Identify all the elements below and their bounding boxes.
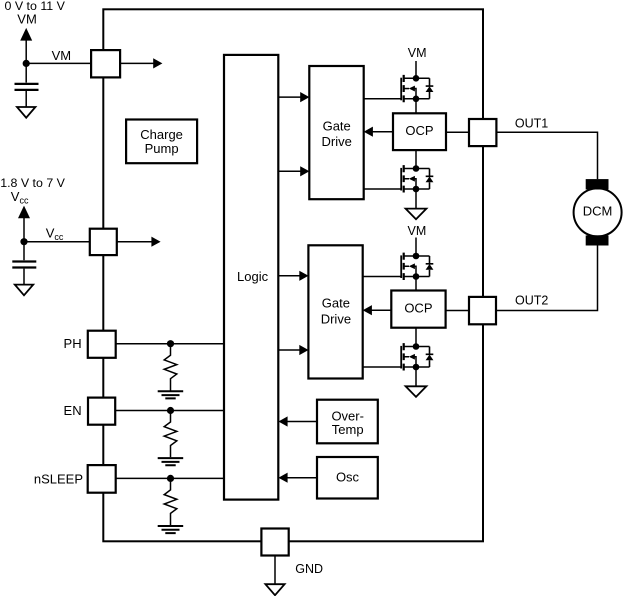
transistor Q2 (low-side, bridge 1) body diode — [426, 177, 434, 183]
wire VM supply arrow up — [20, 28, 32, 41]
svg-text:OUT2: OUT2 — [515, 294, 548, 308]
block Over-Temp — [317, 400, 378, 444]
wire Logic to Gate Drive 1 input A — [278, 96, 301, 98]
wire Osc to Logic — [286, 477, 317, 479]
svg-text:Temp: Temp — [332, 422, 364, 437]
motor DCM wire stub top — [574, 188, 622, 236]
transistor Q2 (low-side, bridge 1) body arrow — [409, 176, 415, 182]
transistor Q1 (high-side, bridge 1) — [364, 75, 434, 102]
svg-text:OCP: OCP — [404, 300, 432, 315]
wire OCP1 to OUT1 pin — [446, 131, 469, 133]
wire Over-Temp to Logic — [286, 421, 317, 423]
ground bridge 2 (power ground) — [406, 386, 427, 397]
svg-text:Gate: Gate — [322, 296, 350, 311]
wire Vcc pin arrow into device — [117, 241, 153, 243]
wire EN pin to Logic — [115, 410, 224, 412]
capacitor C2 (Vcc bypass) — [12, 262, 36, 268]
resistor EN pulldown pulldown — [164, 411, 177, 458]
wire OUT2 to motor — [496, 246, 598, 311]
resistor PH pulldown pulldown — [164, 344, 177, 391]
svg-text:Drive: Drive — [322, 134, 352, 149]
block Charge Pump — [126, 120, 197, 164]
wire Q2 source to ground — [415, 189, 417, 209]
node Q3 (high-side, bridge 2) source junction — [413, 273, 420, 280]
svg-text:Logic: Logic — [237, 269, 269, 284]
transistor Q4 (low-side, bridge 2) body arrow — [409, 354, 415, 360]
svg-text:GND: GND — [295, 562, 323, 576]
wire VM to Q1 drain — [415, 61, 417, 78]
wire OCP1 to Gate Drive 1 — [372, 131, 393, 133]
transistor Q3 (high-side, bridge 2) body arrow — [409, 263, 415, 269]
wire OCP1 to Q2 drain — [415, 150, 417, 168]
transistor Q3 (high-side, bridge 2) — [363, 253, 434, 280]
node PH pulldown junction — [167, 340, 174, 347]
wire OUT1 to motor — [496, 132, 597, 179]
ground EN (signal ground) — [158, 458, 184, 465]
svg-text:VM: VM — [17, 12, 37, 27]
svg-text:1.8 V to 7 V: 1.8 V to 7 V — [0, 176, 65, 190]
wire GND pin to ground — [274, 556, 276, 585]
block Logic — [224, 55, 278, 500]
wire Q1 source to OCP1 — [415, 99, 417, 114]
svg-text:Charge: Charge — [140, 127, 183, 142]
wire Q4 source to ground — [415, 367, 417, 386]
ground Vcc supply (power ground) — [15, 285, 33, 296]
transistor Q1 (high-side, bridge 1) body diode — [426, 86, 434, 92]
wire VM pin arrow into device — [120, 62, 154, 64]
svg-text:VM: VM — [408, 46, 427, 60]
node Q4 (low-side, bridge 2) source junction — [413, 364, 420, 371]
motor DCM brush bottom — [586, 235, 609, 245]
wire OCP2 to Q4 drain — [415, 328, 417, 347]
node Vcc junction — [20, 238, 27, 245]
block Gate Drive 1 — [309, 66, 363, 199]
wire OCP2 to OUT2 pin — [446, 310, 469, 312]
svg-text:OUT1: OUT1 — [515, 116, 548, 130]
svg-text:OCP: OCP — [405, 123, 433, 138]
pin EN — [88, 398, 115, 425]
svg-text:EN: EN — [64, 403, 82, 418]
node Q2 (low-side, bridge 1) drain junction — [413, 165, 420, 172]
pin GND — [261, 529, 288, 556]
pin OUT1 — [469, 119, 496, 146]
svg-text:VM: VM — [408, 224, 427, 238]
svg-text:Pump: Pump — [145, 141, 179, 156]
ground PH (signal ground) — [158, 391, 184, 398]
ground VM supply (power ground) — [17, 107, 35, 118]
transistor Q4 (low-side, bridge 2) — [363, 343, 434, 370]
wire Logic to Gate Drive 1 input B — [278, 170, 301, 172]
wire VM supply to pin — [26, 62, 91, 64]
svg-text:DCM: DCM — [583, 204, 613, 219]
node nSLEEP pulldown junction — [167, 475, 174, 482]
transistor Q1 (high-side, bridge 1) body arrow — [409, 86, 415, 92]
wire VM to Q3 drain — [415, 238, 417, 257]
motor DCM brush top — [586, 179, 609, 189]
wire nSLEEP pin to Logic — [116, 477, 224, 479]
wire Vcc to capacitor — [23, 242, 25, 261]
pin VM — [91, 50, 120, 77]
pin VCC — [90, 229, 117, 255]
capacitor C1 (VM bypass) — [15, 84, 39, 90]
node Q2 (low-side, bridge 1) source junction — [413, 186, 420, 193]
wire capacitor C1 to ground — [25, 91, 27, 107]
transistor Q3 (high-side, bridge 2) body diode — [426, 264, 434, 270]
node VM junction — [23, 60, 30, 67]
svg-text:nSLEEP: nSLEEP — [34, 471, 83, 486]
wire Vcc supply to pin — [24, 241, 90, 243]
wire capacitor C2 to ground — [23, 269, 25, 285]
ground GND (power ground) — [265, 584, 284, 595]
device outline (IC boundary) — [103, 9, 483, 541]
block Gate Drive 2 — [308, 245, 362, 378]
svg-text:Osc: Osc — [336, 470, 360, 485]
wire Vcc supply arrow up — [18, 206, 30, 219]
node Q4 (low-side, bridge 2) drain junction — [413, 343, 420, 350]
block OCP1 — [393, 113, 446, 150]
wire VM to capacitor — [25, 63, 27, 82]
pin nSLEEP — [88, 465, 116, 493]
block OCP2 — [391, 291, 445, 328]
ground bridge 1 (power ground) — [406, 209, 427, 220]
block Osc — [317, 457, 378, 499]
svg-text:VM: VM — [52, 48, 72, 63]
pin PH — [88, 331, 116, 358]
node EN pulldown junction — [167, 407, 174, 414]
wire Logic to Gate Drive 2 input A — [278, 275, 300, 277]
wire Q3 source to OCP2 — [415, 277, 417, 291]
svg-text:PH: PH — [64, 336, 82, 351]
node Q1 (high-side, bridge 1) drain junction — [413, 75, 420, 82]
node Q3 (high-side, bridge 2) drain junction — [413, 253, 420, 260]
transistor Q4 (low-side, bridge 2) body diode — [426, 355, 434, 361]
pin OUT2 — [469, 297, 496, 324]
wire OCP2 to Gate Drive 2 — [371, 309, 392, 311]
wire PH pin to Logic — [116, 343, 224, 345]
svg-text:Over-: Over- — [331, 408, 364, 423]
resistor nSLEEP pulldown pulldown — [164, 478, 177, 525]
node VM supply rail — [25, 40, 27, 63]
node Q1 (high-side, bridge 1) source junction — [413, 96, 420, 103]
svg-text:Gate: Gate — [323, 118, 351, 133]
ground nSLEEP (signal ground) — [158, 526, 184, 533]
wire Logic to Gate Drive 2 input B — [278, 349, 300, 351]
svg-text:Drive: Drive — [321, 311, 351, 326]
transistor Q2 (low-side, bridge 1) — [364, 165, 434, 192]
node Vcc supply rail — [23, 218, 25, 242]
